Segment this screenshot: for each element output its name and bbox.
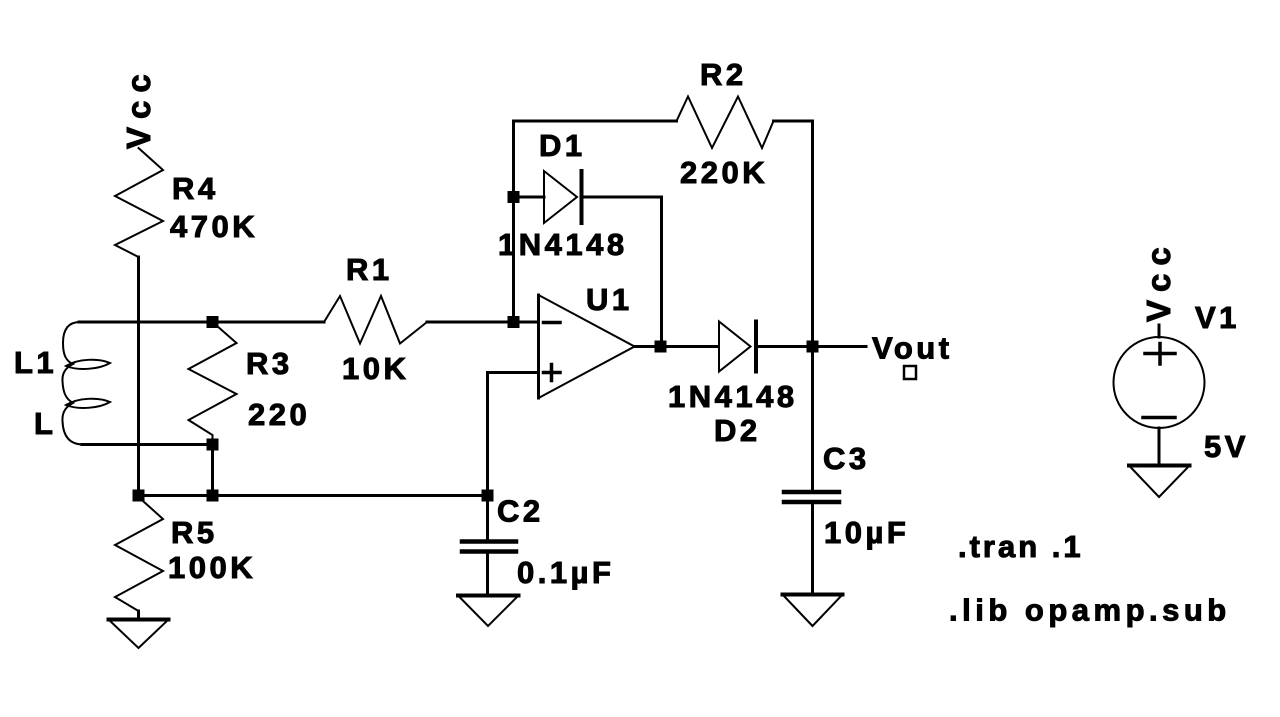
resistor R4 <box>115 148 163 257</box>
capacitor C2 <box>462 539 516 544</box>
svg-text:1N4148: 1N4148 <box>498 227 628 262</box>
junction node (212.5,322) <box>207 316 219 328</box>
wire Vcc stub <box>1158 325 1161 337</box>
wire to Vout <box>813 345 867 348</box>
diode D1 <box>544 171 577 223</box>
ground (C3) <box>783 593 843 597</box>
capacitor C3 <box>784 490 839 495</box>
svg-text:470K: 470K <box>170 209 258 244</box>
svg-text:.lib opamp.sub: .lib opamp.sub <box>949 593 1231 628</box>
resistor R1 <box>324 296 427 344</box>
svg-text:Vout: Vout <box>872 331 953 366</box>
wire D1 anode <box>514 196 545 199</box>
junction node (513.5,322) <box>508 316 520 328</box>
svg-text:C3: C3 <box>823 441 870 476</box>
wire L bottom <box>82 443 213 446</box>
junction node (212.5,495.5) <box>207 490 219 502</box>
wire C3 top <box>811 347 814 491</box>
svg-text:D1: D1 <box>539 128 586 163</box>
wire R3 bottom down <box>211 445 214 496</box>
wire lower horizontal <box>139 494 488 497</box>
ground (C2) <box>458 594 519 598</box>
junction node (212.5,444.5) <box>207 439 219 451</box>
svg-text:0.1µF: 0.1µF <box>517 555 614 590</box>
ground (V1) <box>1129 464 1190 468</box>
op-amp U1 <box>537 295 540 398</box>
svg-text:R3: R3 <box>246 346 293 381</box>
wire D1 cathode <box>584 197 662 347</box>
wire D1 left vertical <box>512 121 515 322</box>
svg-text:220: 220 <box>248 397 310 432</box>
junction node (513.5,197) <box>508 191 520 203</box>
wire C2 bottom <box>486 554 489 595</box>
junction node (812.5,346.5) <box>807 341 819 353</box>
diode D2 <box>719 322 751 372</box>
svg-text:R1: R1 <box>346 252 393 287</box>
svg-text:D2: D2 <box>714 413 761 448</box>
svg-text:R2: R2 <box>700 57 747 92</box>
svg-text:10µF: 10µF <box>824 515 909 550</box>
wire top horizontal to R2 <box>514 120 677 123</box>
junction node (660.5,346.5) <box>655 341 667 353</box>
ground (R5) <box>109 618 169 622</box>
svg-text:R4: R4 <box>172 171 219 206</box>
svg-text:5V: 5V <box>1204 429 1249 464</box>
resistor R2 <box>677 97 774 149</box>
wire op-amp output <box>635 345 719 348</box>
node Vout square <box>904 366 916 379</box>
svg-text:L1: L1 <box>14 345 57 380</box>
resistor R3 <box>189 322 237 445</box>
svg-text:Vcc: Vcc <box>120 66 157 149</box>
wire top horizontal <box>79 321 324 324</box>
wire R5 to ground <box>137 611 140 619</box>
svg-text:C2: C2 <box>497 494 544 529</box>
svg-text:10K: 10K <box>342 351 409 386</box>
inductor L1 <box>62 322 83 445</box>
svg-text:100K: 100K <box>168 550 256 585</box>
resistor R5 <box>115 497 163 611</box>
junction node (487.5,495.5) <box>482 490 494 502</box>
voltage source V1 <box>1114 337 1205 428</box>
junction node (138.5,495.5) <box>133 490 145 502</box>
wire V1 to ground <box>1158 428 1161 465</box>
svg-text:R5: R5 <box>171 515 218 550</box>
svg-text:U1: U1 <box>586 282 633 317</box>
svg-text:V1: V1 <box>1195 300 1240 335</box>
svg-text:.tran .1: .tran .1 <box>958 529 1084 564</box>
wire R2 right corner <box>774 121 813 347</box>
wire R1 to op-amp <box>427 321 538 324</box>
wire C3 bottom <box>811 504 814 594</box>
wire plus input <box>488 373 539 540</box>
svg-text:220K: 220K <box>680 155 768 190</box>
svg-text:Vcc: Vcc <box>1140 239 1177 322</box>
svg-text:L: L <box>34 406 56 441</box>
wire D2 cathode <box>758 345 813 348</box>
wire vertical spine <box>137 257 140 496</box>
svg-text:1N4148: 1N4148 <box>668 379 798 414</box>
